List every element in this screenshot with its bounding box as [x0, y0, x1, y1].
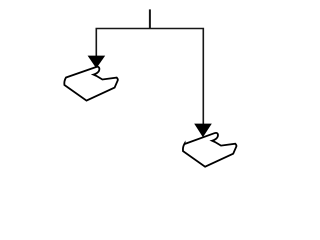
right scrap shape node	[183, 133, 237, 167]
wire: branch connector (left drop, cross bar, right drop)	[96, 29, 203, 126]
wire: top stub	[149, 9, 151, 28]
arrowhead into right shape	[194, 124, 212, 138]
arrowhead into left shape	[88, 56, 106, 69]
left scrap shape node	[64, 67, 118, 101]
